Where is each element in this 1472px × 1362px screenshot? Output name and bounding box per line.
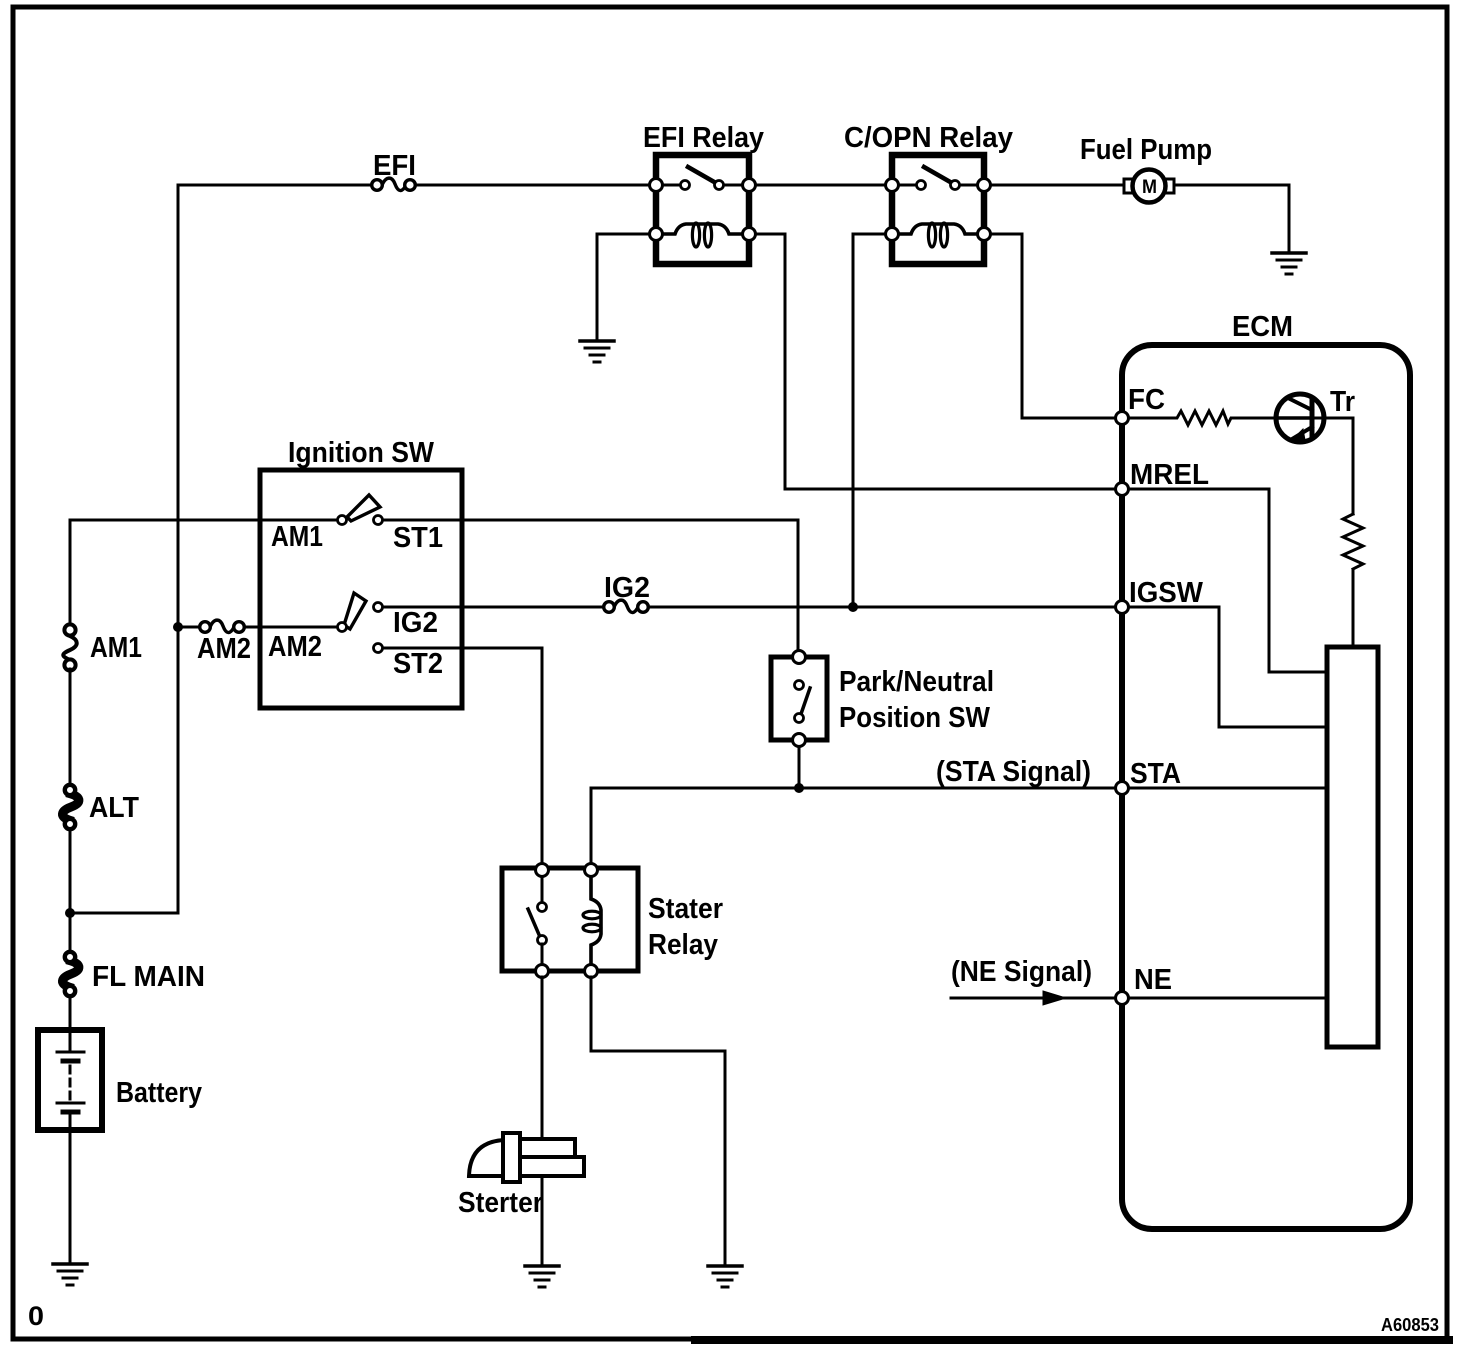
node AM2 junction bbox=[173, 622, 183, 632]
wire resistor to connector block bbox=[1352, 571, 1355, 647]
fusible link ALT bbox=[62, 785, 139, 829]
svg-text:M: M bbox=[1142, 177, 1157, 198]
wire main B+ feed from node at (178,185) bbox=[178, 185, 373, 913]
svg-text:MREL: MREL bbox=[1130, 459, 1209, 491]
ECM block bbox=[1122, 311, 1410, 1229]
wire NE signal with arrow bbox=[951, 956, 1115, 1005]
wire NE internal bbox=[1122, 997, 1327, 1000]
svg-text:EFI: EFI bbox=[373, 150, 416, 182]
fuse AM1 bbox=[63, 624, 142, 670]
battery bbox=[38, 1030, 202, 1130]
node IGSW junction bbox=[848, 602, 858, 612]
fusible link FL MAIN bbox=[62, 952, 205, 996]
wire ALT to junction bbox=[69, 829, 72, 956]
wire park/neutral to STA line bbox=[798, 747, 801, 788]
relay starter bbox=[502, 864, 723, 978]
pin FC bbox=[1116, 384, 1166, 425]
resistor FC internal bbox=[1128, 411, 1277, 425]
fuse AM2 bbox=[178, 620, 337, 665]
pin MREL bbox=[1116, 459, 1210, 496]
svg-text:A60853: A60853 bbox=[1381, 1315, 1439, 1335]
wire AM1 feed bbox=[70, 520, 337, 625]
wire EFI fuse to EFI relay bbox=[415, 184, 656, 187]
wire EFI relay to C/OPN relay bbox=[756, 184, 892, 187]
wire ST2 to starter relay bbox=[383, 648, 542, 864]
switch Ignition SW bbox=[260, 437, 462, 708]
transistor Tr bbox=[1276, 386, 1355, 442]
wire branch to junction bbox=[70, 912, 178, 915]
svg-text:Tr: Tr bbox=[1330, 386, 1355, 418]
wire battery to ground bbox=[69, 1130, 72, 1263]
switch contact AM2/IG2/ST2 bbox=[268, 593, 443, 680]
svg-text:Fuel Pump: Fuel Pump bbox=[1080, 134, 1212, 166]
ground battery bbox=[53, 1264, 87, 1285]
wire fuel pump to ground bbox=[1174, 185, 1289, 252]
relay EFI Relay bbox=[643, 122, 764, 264]
wire C/OPN coil to FC bbox=[991, 234, 1115, 418]
wire C/OPN coil to IGSW net bbox=[853, 234, 885, 607]
wire starter relay to starter bbox=[541, 977, 544, 1265]
relay C/OPN Relay bbox=[844, 122, 1013, 264]
resistor internal vertical bbox=[1343, 514, 1363, 569]
svg-text:Battery: Battery bbox=[116, 1077, 202, 1109]
svg-text:IG2: IG2 bbox=[604, 572, 650, 604]
svg-text:NE: NE bbox=[1134, 964, 1172, 996]
svg-text:Park/Neutral: Park/Neutral bbox=[839, 666, 994, 698]
svg-text:C/OPN Relay: C/OPN Relay bbox=[844, 122, 1013, 154]
ground starter relay coil bbox=[708, 1266, 742, 1287]
svg-text:AM1: AM1 bbox=[90, 632, 142, 664]
svg-text:STA: STA bbox=[1130, 758, 1181, 790]
svg-text:ALT: ALT bbox=[89, 792, 139, 824]
wire C/OPN relay to fuel pump bbox=[991, 184, 1125, 187]
svg-text:ECM: ECM bbox=[1232, 311, 1293, 343]
svg-text:(NE Signal): (NE Signal) bbox=[951, 956, 1092, 988]
svg-text:EFI Relay: EFI Relay bbox=[643, 122, 764, 154]
connector block inside ECM bbox=[1327, 647, 1378, 1047]
svg-text:(STA Signal): (STA Signal) bbox=[936, 756, 1091, 788]
wire EFI relay coil to ground bbox=[597, 234, 649, 340]
svg-text:AM2: AM2 bbox=[268, 631, 322, 663]
svg-text:Ignition SW: Ignition SW bbox=[288, 437, 435, 469]
wire IGSW internal bbox=[1122, 607, 1327, 727]
ground EFI relay bbox=[580, 341, 614, 362]
wire FL MAIN to battery bbox=[69, 996, 72, 1052]
svg-text:AM2: AM2 bbox=[197, 633, 251, 665]
wire Tr collector to internal resistor bbox=[1316, 418, 1353, 514]
wire ST1 to park/neutral SW bbox=[383, 520, 798, 651]
wire MREL internal bbox=[1122, 489, 1327, 672]
svg-text:IG2: IG2 bbox=[393, 607, 438, 639]
wire STA internal bbox=[1122, 787, 1327, 790]
wire IG2 fuse to IGSW pin bbox=[648, 606, 1115, 609]
wire AM1 fuse to ALT fuse bbox=[69, 669, 72, 786]
svg-text:Position SW: Position SW bbox=[839, 702, 991, 734]
pin IGSW bbox=[1116, 577, 1204, 614]
switch park/neutral position bbox=[771, 651, 994, 747]
fuse EFI bbox=[372, 150, 416, 191]
fuse IG2 bbox=[604, 572, 650, 613]
svg-text:AM1: AM1 bbox=[271, 521, 323, 553]
switch contact AM1/ST1 bbox=[271, 495, 443, 554]
svg-text:0: 0 bbox=[28, 1301, 44, 1331]
svg-text:IGSW: IGSW bbox=[1129, 577, 1204, 609]
pin NE bbox=[1116, 964, 1173, 1005]
svg-text:FL MAIN: FL MAIN bbox=[92, 961, 205, 993]
svg-text:Relay: Relay bbox=[648, 929, 718, 961]
node STA junction bbox=[794, 783, 804, 793]
wire EFI relay coil to MREL bbox=[756, 234, 1115, 489]
svg-text:FC: FC bbox=[1128, 384, 1165, 416]
svg-text:Sterter: Sterter bbox=[458, 1187, 543, 1219]
motor fuel pump bbox=[1080, 134, 1212, 203]
pin STA bbox=[1116, 758, 1182, 795]
ground fuel pump bbox=[1272, 253, 1306, 274]
starter motor bbox=[458, 1133, 584, 1219]
wire starter relay coil to ground bbox=[591, 977, 725, 1265]
node battery junction bbox=[65, 908, 75, 918]
svg-text:Stater: Stater bbox=[648, 893, 723, 925]
svg-text:ST2: ST2 bbox=[393, 648, 443, 680]
ground starter bbox=[525, 1266, 559, 1287]
wire STA signal line bbox=[591, 788, 1115, 870]
svg-text:ST1: ST1 bbox=[393, 522, 443, 554]
wire IG2 contact to IG2 fuse bbox=[383, 606, 604, 609]
